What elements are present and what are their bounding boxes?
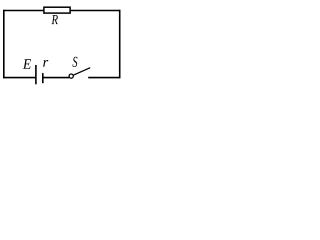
wire: bottom-left segment, corner to battery [4,77,36,79]
battery E: long plate [35,65,37,84]
wire: top side of loop [4,10,120,12]
wire: bottom-right segment, switch to corner [88,77,120,79]
switch S: open blade arm [73,68,90,76]
wire: bottom-middle segment, battery to switch [43,77,70,79]
wire: right side of loop [119,10,121,79]
switch S: pivot circle [69,74,73,78]
label E (emf) [23,59,31,68]
resistor R (box on top wire) [44,7,70,13]
wire: left side of loop [3,10,5,79]
battery E: short plate [42,73,44,83]
label r (internal resistance) [43,60,48,67]
label S [73,57,78,67]
label R [51,15,57,24]
